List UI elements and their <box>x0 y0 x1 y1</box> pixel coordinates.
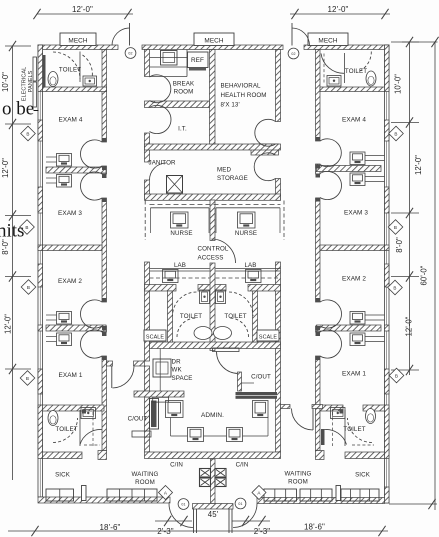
svg-text:2'-3": 2'-3" <box>254 527 270 536</box>
svg-text:JANITOR: JANITOR <box>149 160 176 167</box>
svg-text:STORAGE: STORAGE <box>217 175 248 182</box>
svg-text:NURSE: NURSE <box>235 230 257 237</box>
svg-text:C/IN: C/IN <box>236 462 249 469</box>
svg-text:MECH: MECH <box>318 38 338 45</box>
svg-text:2'-3": 2'-3" <box>157 527 173 536</box>
svg-text:o be: o be <box>2 99 34 120</box>
svg-text:B: B <box>395 373 398 378</box>
svg-text:12'-0": 12'-0" <box>72 5 93 14</box>
svg-text:45': 45' <box>208 510 219 519</box>
svg-text:B: B <box>394 225 397 230</box>
svg-text:EXAM 2: EXAM 2 <box>58 278 82 285</box>
svg-text:LAB: LAB <box>174 262 186 269</box>
svg-text:01: 01 <box>181 502 185 506</box>
svg-text:WAITING: WAITING <box>132 471 159 478</box>
svg-text:TOILET: TOILET <box>180 313 202 320</box>
svg-text:12'-0": 12'-0" <box>1 158 10 178</box>
svg-text:ROOM: ROOM <box>288 479 308 486</box>
svg-text:ROOM: ROOM <box>174 89 194 96</box>
svg-text:EXAM 4: EXAM 4 <box>342 117 366 124</box>
svg-text:SPACE: SPACE <box>172 375 193 382</box>
svg-text:8'X 13': 8'X 13' <box>221 102 240 109</box>
svg-text:EXAM 1: EXAM 1 <box>58 372 82 379</box>
svg-text:ACCESS: ACCESS <box>197 255 223 262</box>
svg-text:10'-0": 10'-0" <box>394 74 403 94</box>
svg-text:TOILET: TOILET <box>55 426 77 433</box>
svg-text:12'-0": 12'-0" <box>328 5 349 14</box>
svg-text:B: B <box>26 376 29 381</box>
svg-text:C/OUT: C/OUT <box>128 416 148 423</box>
svg-text:EXAM 1: EXAM 1 <box>342 371 366 378</box>
svg-text:18'-6": 18'-6" <box>304 523 325 532</box>
svg-text:TOILET: TOILET <box>59 67 81 74</box>
svg-text:18'-6": 18'-6" <box>100 523 121 532</box>
svg-text:REF: REF <box>191 57 204 64</box>
svg-text:TOILET: TOILET <box>224 313 246 320</box>
svg-text:I.T.: I.T. <box>178 126 187 133</box>
svg-text:nits: nits <box>0 221 24 242</box>
svg-text:C/IN: C/IN <box>170 462 183 469</box>
svg-text:ROOM: ROOM <box>135 479 155 486</box>
svg-text:B: B <box>27 285 30 290</box>
svg-text:MED: MED <box>217 167 231 174</box>
svg-text:BEHAVIORAL: BEHAVIORAL <box>221 83 262 90</box>
svg-text:TOILET: TOILET <box>345 68 367 75</box>
svg-text:BREAK: BREAK <box>173 81 195 88</box>
svg-text:WK: WK <box>172 367 183 374</box>
svg-text:MECH: MECH <box>68 38 88 45</box>
svg-text:EXAM 3: EXAM 3 <box>344 210 368 217</box>
svg-text:CONTROL: CONTROL <box>198 246 229 253</box>
svg-text:60'-0": 60'-0" <box>420 265 429 285</box>
svg-text:8'-0": 8'-0" <box>395 237 404 253</box>
svg-text:TOILET: TOILET <box>343 426 365 433</box>
svg-text:ADMIN.: ADMIN. <box>201 412 224 419</box>
svg-text:B: B <box>25 225 28 230</box>
svg-text:B: B <box>394 131 397 136</box>
svg-text:EXAM 2: EXAM 2 <box>342 276 366 283</box>
svg-text:02: 02 <box>128 51 132 55</box>
svg-text:B: B <box>26 131 29 136</box>
svg-text:B: B <box>393 285 396 290</box>
svg-text:HEALTH ROOM: HEALTH ROOM <box>221 92 267 99</box>
svg-text:ELECTRICAL: ELECTRICAL <box>22 67 28 102</box>
svg-text:C/OUT: C/OUT <box>251 374 271 381</box>
svg-text:12'-0": 12'-0" <box>414 155 423 175</box>
svg-text:SCALE: SCALE <box>146 335 164 341</box>
svg-text:EXAM 3: EXAM 3 <box>58 210 82 217</box>
svg-text:EXAM 4: EXAM 4 <box>58 117 82 124</box>
svg-text:01: 01 <box>238 502 242 506</box>
svg-text:SCALE: SCALE <box>259 335 277 341</box>
svg-text:SICK: SICK <box>355 472 371 479</box>
svg-text:SICK: SICK <box>55 472 71 479</box>
svg-text:DR: DR <box>172 359 182 366</box>
svg-text:PANELS: PANELS <box>28 70 34 92</box>
svg-text:02: 02 <box>291 52 295 56</box>
svg-text:12'-0": 12'-0" <box>405 316 414 336</box>
svg-text:WAITING: WAITING <box>285 471 312 478</box>
svg-text:12'-0": 12'-0" <box>4 314 13 334</box>
svg-text:NURSE: NURSE <box>170 230 192 237</box>
svg-text:10'-0": 10'-0" <box>1 72 10 92</box>
svg-text:LAB: LAB <box>245 262 257 269</box>
svg-text:MECH: MECH <box>204 38 224 45</box>
